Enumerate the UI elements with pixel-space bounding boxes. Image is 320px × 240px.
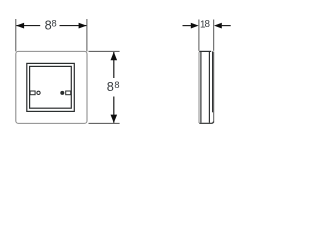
depth dimension left tail <box>183 25 192 27</box>
right button filled circle <box>60 91 64 95</box>
left button rectangle <box>30 91 35 95</box>
dimension line height bottom segment <box>113 97 115 123</box>
side view left edge gray <box>199 51 201 123</box>
dimension line width left segment <box>16 25 40 27</box>
left button circle <box>37 91 40 94</box>
extension line left of width dimension <box>15 19 17 51</box>
inner square outer border <box>27 63 75 111</box>
side view top edge dark <box>199 50 211 52</box>
side view right edge gray <box>213 52 215 123</box>
extension line right of depth dimension <box>213 20 215 51</box>
extension line top of height dimension <box>89 50 120 52</box>
dimension line height top segment <box>113 52 115 78</box>
arrow left <box>16 23 24 29</box>
dimension line width right segment <box>60 25 87 27</box>
svg-text:8: 8 <box>205 19 211 30</box>
side view bottom edge dark <box>199 122 213 124</box>
svg-text:8: 8 <box>114 80 119 90</box>
svg-text:8: 8 <box>52 19 57 29</box>
extension line right of width dimension <box>86 19 88 51</box>
side view inner wall line <box>212 51 214 112</box>
side view plate back line <box>208 52 210 123</box>
depth arrow pointing left <box>214 23 222 29</box>
arrow down <box>111 115 118 123</box>
svg-text:8: 8 <box>107 79 114 94</box>
extension line left of depth dimension <box>198 20 200 51</box>
depth arrow pointing right <box>191 23 199 29</box>
side view front face line <box>200 52 202 123</box>
inner square inner border <box>30 66 72 108</box>
depth dimension right tail <box>221 25 230 27</box>
plate outer square <box>16 51 87 123</box>
arrow up <box>111 52 118 60</box>
arrow right <box>79 23 87 29</box>
right button rectangle <box>66 91 71 95</box>
extension line bottom of height dimension <box>89 122 120 124</box>
